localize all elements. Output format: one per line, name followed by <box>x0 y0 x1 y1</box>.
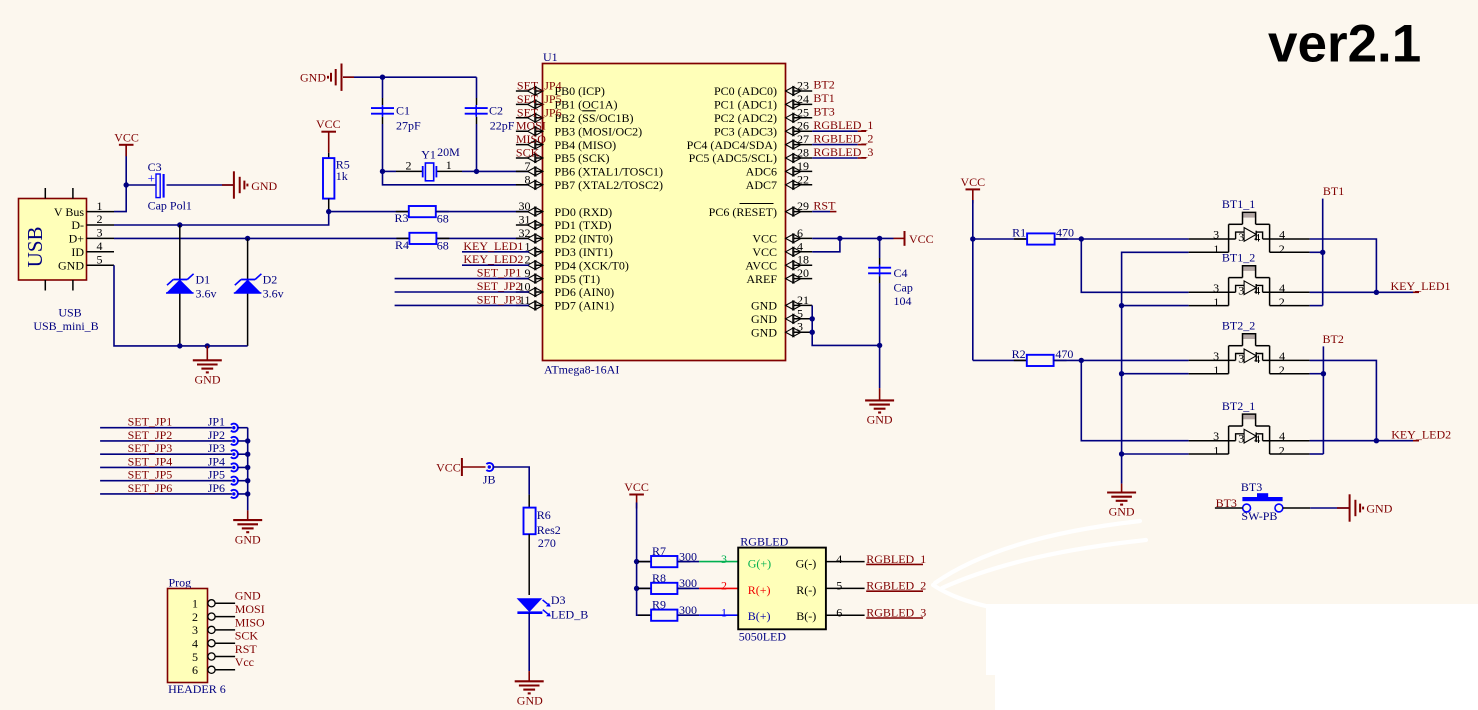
svg-text:D2: D2 <box>263 273 278 287</box>
junction GND pin5 <box>810 316 815 321</box>
svg-text:SET_JP6: SET_JP6 <box>128 481 173 495</box>
svg-text:VCC: VCC <box>114 130 139 144</box>
net label SET_JP3 (pin11) <box>395 304 529 306</box>
net label RGBLED_3 (LED pin6) <box>826 614 865 616</box>
jumper JP6 <box>232 492 235 495</box>
svg-text:SET_JP2: SET_JP2 <box>477 279 522 293</box>
svg-text:RGBLED_2: RGBLED_2 <box>866 579 926 593</box>
wire R5 bottom <box>328 199 330 212</box>
svg-text:ver2.1: ver2.1 <box>1268 14 1421 73</box>
resistor R2 <box>1014 359 1027 361</box>
svg-text:GND: GND <box>751 325 777 339</box>
wire BT2_1 pin1 <box>1122 453 1189 455</box>
net label SET_JP2 (pin10) <box>395 291 529 293</box>
wire BT2_2 pin4 to node <box>1310 360 1377 440</box>
svg-text:4: 4 <box>797 239 803 253</box>
svg-text:JP5: JP5 <box>208 468 225 482</box>
wire GND stem (USB) <box>206 346 208 360</box>
svg-text:R2: R2 <box>1012 347 1026 361</box>
svg-text:470: 470 <box>1055 347 1073 361</box>
svg-text:G(+): G(+) <box>748 556 771 570</box>
wire jumper bus <box>247 428 249 511</box>
svg-text:2: 2 <box>721 579 727 593</box>
junction D1 <box>177 222 182 227</box>
wire C4 branch <box>879 238 881 258</box>
junction BT2/pin2 <box>1321 371 1326 376</box>
svg-text:1: 1 <box>1213 242 1219 256</box>
wire R2 to BT2_2 pin3 <box>1081 359 1188 361</box>
resistor R3 <box>396 211 409 213</box>
ground GND (USB) <box>193 359 222 361</box>
wire G(+) pin3 <box>677 561 699 563</box>
wire C1 branch <box>382 77 384 98</box>
svg-text:LED_B: LED_B <box>551 607 588 621</box>
svg-text:JB: JB <box>483 472 496 486</box>
svg-text:C1: C1 <box>396 104 410 118</box>
net label SET_JP5 wire <box>100 480 232 482</box>
junction KEY_LED1 <box>1374 290 1379 295</box>
svg-text:PD0 (RXD): PD0 (RXD) <box>555 205 613 219</box>
svg-text:6: 6 <box>797 226 803 240</box>
svg-text:PC3 (ADC3): PC3 (ADC3) <box>714 124 777 138</box>
svg-text:GND: GND <box>1109 505 1135 519</box>
svg-text:GND: GND <box>235 589 261 603</box>
svg-text:C4: C4 <box>894 266 908 280</box>
wire key GND bus <box>1122 252 1189 483</box>
svg-text:RGBLED_2: RGBLED_2 <box>813 132 873 146</box>
svg-text:R7: R7 <box>652 544 666 558</box>
svg-text:104: 104 <box>894 294 912 308</box>
svg-text:470: 470 <box>1056 226 1074 240</box>
svg-text:3: 3 <box>97 226 103 240</box>
svg-text:SW-PB: SW-PB <box>1241 509 1277 523</box>
junction C4 bottom <box>877 343 882 348</box>
svg-text:GND: GND <box>751 299 777 313</box>
USB connector <box>19 199 87 281</box>
svg-text:3: 3 <box>1238 230 1244 244</box>
resistor R5 <box>328 153 330 158</box>
svg-text:2: 2 <box>97 212 103 226</box>
wire XTAL gnd bus <box>343 76 477 78</box>
svg-text:RST: RST <box>235 642 258 656</box>
net label KEY_LED1 (pin1) <box>462 251 529 253</box>
svg-text:R4: R4 <box>395 238 409 252</box>
svg-text:68: 68 <box>437 211 449 225</box>
svg-text:PD3 (INT1): PD3 (INT1) <box>555 245 613 259</box>
svg-text:SET_JP5: SET_JP5 <box>128 468 173 482</box>
wire BT1_2 pin2 <box>1310 305 1323 307</box>
svg-text:2: 2 <box>1279 444 1285 458</box>
svg-text:4: 4 <box>192 637 198 651</box>
svg-text:RGBLED_1: RGBLED_1 <box>866 552 926 566</box>
svg-text:JP1: JP1 <box>208 415 225 429</box>
svg-text:68: 68 <box>437 238 449 252</box>
svg-text:VCC: VCC <box>752 245 777 259</box>
svg-text:7: 7 <box>525 159 531 173</box>
capacitor C4 <box>879 265 881 277</box>
svg-text:1: 1 <box>97 199 103 213</box>
junction VBus/C3 <box>124 182 129 187</box>
svg-text:PB6 (XTAL1/TOSC1): PB6 (XTAL1/TOSC1) <box>555 165 664 179</box>
jumper JP4 <box>232 466 235 469</box>
U1 left pin stubs <box>516 90 543 92</box>
svg-text:ATmega8-16AI: ATmega8-16AI <box>544 363 619 377</box>
junction R1 in <box>970 236 975 241</box>
svg-text:18: 18 <box>797 253 809 267</box>
net label SET_JP2 wire <box>100 440 232 442</box>
junction GND/D1 <box>177 343 182 348</box>
wire VCC pin6 <box>812 237 893 239</box>
junction D2 <box>245 236 250 241</box>
svg-text:1: 1 <box>1213 295 1219 309</box>
wire R6 to D3 <box>528 534 530 595</box>
power VCC (U1) <box>894 237 905 239</box>
svg-text:PC0 (ADC0): PC0 (ADC0) <box>714 84 777 98</box>
svg-text:ADC7: ADC7 <box>746 178 777 192</box>
svg-text:PD2 (INT0): PD2 (INT0) <box>555 232 613 246</box>
svg-text:24: 24 <box>797 92 809 106</box>
svg-text:GND: GND <box>517 694 543 708</box>
jumper JB <box>488 465 491 468</box>
wire BT2 vertical <box>1322 346 1324 454</box>
svg-text:R1: R1 <box>1012 226 1026 240</box>
svg-text:PB4 (MISO): PB4 (MISO) <box>555 138 617 152</box>
wire GND stem (keys) <box>1121 484 1123 493</box>
svg-text:VCC: VCC <box>752 232 777 246</box>
wire BT3 to GND <box>1310 507 1349 509</box>
svg-text:1: 1 <box>192 597 198 611</box>
svg-text:BT2_1: BT2_1 <box>1222 399 1255 413</box>
junction BT2_2 pin1 <box>1119 371 1124 376</box>
junction GND/D2 <box>205 343 210 348</box>
svg-text:5: 5 <box>192 650 198 664</box>
svg-text:2: 2 <box>1279 363 1285 377</box>
svg-text:25: 25 <box>797 105 809 119</box>
svg-text:1k: 1k <box>336 169 348 183</box>
net label KEY_LED1 <box>1376 291 1413 293</box>
svg-text:BT2_2: BT2_2 <box>1222 319 1255 333</box>
net label SET_JP4 wire <box>100 466 232 468</box>
junction R1 node <box>1079 236 1084 241</box>
svg-text:BT1: BT1 <box>813 91 834 105</box>
svg-text:BT2: BT2 <box>1323 332 1344 346</box>
wire D2 drop <box>247 238 249 346</box>
svg-text:1: 1 <box>721 606 727 620</box>
net label RGBLED_1 (LED pin4) <box>826 561 865 563</box>
svg-text:2: 2 <box>1279 295 1285 309</box>
junction R8 tap <box>634 586 639 591</box>
net label SET_JP1 wire <box>100 427 232 429</box>
svg-text:RGBLED_1: RGBLED_1 <box>813 118 873 132</box>
power VCC (keys) <box>966 188 981 190</box>
svg-text:RGBLED_3: RGBLED_3 <box>866 606 926 620</box>
wire R3 to RXD <box>436 211 529 213</box>
wire R1 in <box>973 238 1027 240</box>
junction R2 node <box>1079 358 1084 363</box>
svg-text:JP6: JP6 <box>208 481 225 495</box>
svg-text:R6: R6 <box>537 508 551 522</box>
svg-text:PB1 (OC1A): PB1 (OC1A) <box>555 98 618 112</box>
wire R1 to BT1_2 pin3 <box>1081 239 1188 292</box>
jumper JP5 <box>232 479 235 482</box>
svg-text:G(-): G(-) <box>796 556 817 570</box>
wire B(+) pin1 <box>677 614 699 616</box>
wire BT2_1 pin4 <box>1310 440 1377 442</box>
junction BT1_2 pin1 <box>1119 303 1124 308</box>
wire VCC riser <box>972 200 974 360</box>
svg-text:SET_JP3: SET_JP3 <box>128 441 173 455</box>
svg-text:SET_JP5: SET_JP5 <box>517 92 562 106</box>
wire BT2_2 pin1 <box>1122 373 1189 375</box>
svg-text:Cap: Cap <box>894 280 913 294</box>
svg-text:B(+): B(+) <box>748 609 771 623</box>
svg-text:USB: USB <box>23 226 47 267</box>
svg-text:2: 2 <box>1279 242 1285 256</box>
svg-text:GND: GND <box>195 373 221 387</box>
svg-text:D1: D1 <box>196 273 211 287</box>
net label RST (pin29) <box>812 211 830 213</box>
svg-text:KEY_LED1: KEY_LED1 <box>1391 279 1451 293</box>
wire JB to R6 <box>493 467 530 495</box>
wire BT1 vertical <box>1322 199 1324 306</box>
wire D+ (USB to R4) <box>114 237 409 239</box>
svg-text:PC6 (RESET): PC6 (RESET) <box>709 205 777 219</box>
IC RGBLED 5050LED <box>738 548 826 630</box>
net label SET_JP3 wire <box>100 453 232 455</box>
svg-text:4: 4 <box>1254 230 1260 244</box>
wire BT1_2 pin4 <box>1310 291 1377 293</box>
ground GND (C3) <box>233 171 235 198</box>
svg-text:Prog: Prog <box>169 575 192 589</box>
svg-text:SET_JP4: SET_JP4 <box>128 454 173 468</box>
ground GND (U1) <box>865 399 894 401</box>
svg-text:VCC: VCC <box>316 117 341 131</box>
svg-text:GND: GND <box>235 532 261 546</box>
svg-text:22pF: 22pF <box>490 118 515 132</box>
svg-text:PD1 (TXD): PD1 (TXD) <box>555 218 612 232</box>
U1 right pin stubs <box>786 90 813 92</box>
svg-text:PC4 (ADC4/SDA): PC4 (ADC4/SDA) <box>687 138 777 152</box>
svg-text:6: 6 <box>192 663 198 677</box>
net label RGBLED_2 (LED pin5) <box>826 587 865 589</box>
svg-text:3.6v: 3.6v <box>263 286 284 300</box>
svg-text:1: 1 <box>1213 444 1219 458</box>
junction R5/R3 <box>326 209 331 214</box>
svg-text:3.6v: 3.6v <box>196 286 217 300</box>
svg-text:V Bus: V Bus <box>54 205 84 219</box>
svg-text:Res2: Res2 <box>537 523 561 537</box>
wire XTAL2 (pin8) <box>383 171 530 184</box>
wire R8 tap <box>637 587 652 589</box>
svg-text:1: 1 <box>446 158 452 172</box>
power VCC (USB) <box>119 144 134 146</box>
svg-text:27pF: 27pF <box>396 118 421 132</box>
wire R1 to BT1_1 pin3 <box>1081 238 1188 240</box>
svg-text:R(+): R(+) <box>748 583 771 597</box>
junction R7 tap <box>634 559 639 564</box>
svg-text:GND: GND <box>751 312 777 326</box>
svg-text:JP4: JP4 <box>208 454 225 468</box>
wire BT1_1 pin2 <box>1310 251 1323 253</box>
svg-text:27: 27 <box>797 132 809 146</box>
junction GND pin3 <box>810 330 815 335</box>
svg-text:MISO: MISO <box>516 132 546 146</box>
svg-text:MOSI: MOSI <box>235 602 265 616</box>
jumper JP2 <box>232 439 235 442</box>
svg-text:HEADER 6: HEADER 6 <box>168 682 226 696</box>
svg-text:BT1_2: BT1_2 <box>1222 250 1255 264</box>
svg-text:RST: RST <box>813 199 836 213</box>
jumper JP1 <box>232 426 235 429</box>
svg-text:MOSI: MOSI <box>516 119 546 133</box>
svg-text:3: 3 <box>192 623 198 637</box>
junction Y1 right <box>474 169 479 174</box>
svg-text:5: 5 <box>836 579 842 593</box>
svg-text:3: 3 <box>721 552 727 566</box>
svg-text:R3: R3 <box>394 211 408 225</box>
wire C3 to GND <box>167 184 234 186</box>
svg-text:R9: R9 <box>652 598 666 612</box>
svg-text:SCK: SCK <box>235 629 259 643</box>
svg-text:8: 8 <box>525 172 531 186</box>
svg-text:5050LED: 5050LED <box>739 629 787 643</box>
svg-text:R8: R8 <box>652 571 666 585</box>
svg-text:Vcc: Vcc <box>235 655 254 669</box>
svg-text:C2: C2 <box>489 104 503 118</box>
resistor R9 <box>638 614 651 616</box>
svg-text:GND: GND <box>251 179 277 193</box>
svg-text:4: 4 <box>97 239 103 253</box>
svg-text:BT3: BT3 <box>1241 480 1262 494</box>
capacitor C2 <box>475 105 477 117</box>
capacitor C1 <box>382 105 384 117</box>
svg-text:21: 21 <box>797 293 809 307</box>
svg-text:32: 32 <box>519 226 531 240</box>
svg-text:U1: U1 <box>543 50 558 64</box>
wire BT1_1 pin4 to node <box>1310 239 1377 292</box>
svg-text:PB3 (MOSI/OC2): PB3 (MOSI/OC2) <box>555 124 643 138</box>
svg-text:4: 4 <box>1254 352 1260 366</box>
wire D3 to GND <box>528 613 530 671</box>
junction Y1 left <box>380 169 385 174</box>
svg-text:22: 22 <box>797 172 809 186</box>
svg-text:PC2 (ADC2): PC2 (ADC2) <box>714 111 777 125</box>
wire VCC pin4 <box>812 238 840 251</box>
svg-text:D-: D- <box>71 218 84 232</box>
wire VCC bus RGB <box>637 503 652 616</box>
svg-text:JP2: JP2 <box>208 428 225 442</box>
svg-text:KEY_LED2: KEY_LED2 <box>1391 427 1451 441</box>
svg-text:1: 1 <box>1213 363 1219 377</box>
zener D2 <box>234 280 261 294</box>
svg-text:USB_mini_B: USB_mini_B <box>33 319 98 333</box>
svg-text:28: 28 <box>797 146 809 160</box>
ground GND (D3) <box>515 680 544 682</box>
wire C2 branch <box>476 77 478 98</box>
net label KEY_LED2 (pin2) <box>462 264 529 266</box>
wire R1 out <box>1055 238 1082 240</box>
wire GND to C4 <box>812 332 879 345</box>
wire VBus to VCC <box>114 145 126 212</box>
svg-text:BT2: BT2 <box>813 78 834 92</box>
zener D1 <box>166 280 193 294</box>
svg-text:MISO: MISO <box>235 615 265 629</box>
svg-text:D+: D+ <box>69 232 85 246</box>
wire R(+) pin2 <box>677 587 699 589</box>
svg-text:GND: GND <box>1366 502 1392 516</box>
capacitor C3 <box>156 174 160 198</box>
IC U1 ATmega8-16AI <box>543 64 786 361</box>
wire BT2_2 pin2 <box>1310 373 1324 375</box>
wire node to R3 <box>329 211 409 213</box>
resistor R4 <box>396 237 409 239</box>
resistor R8 <box>638 587 651 589</box>
svg-text:RGBLED_3: RGBLED_3 <box>813 145 873 159</box>
svg-text:SET_JP6: SET_JP6 <box>517 105 562 119</box>
wire D- (USB to riser) <box>114 212 329 225</box>
svg-text:19: 19 <box>797 159 809 173</box>
svg-text:4: 4 <box>1254 284 1260 298</box>
ground GND (keys) <box>1107 491 1136 493</box>
resistor R7 <box>638 561 651 563</box>
svg-text:BT3: BT3 <box>813 104 834 118</box>
wire USB GND <box>114 265 248 346</box>
svg-text:PB5 (SCK): PB5 (SCK) <box>555 151 610 165</box>
svg-text:BT1_1: BT1_1 <box>1222 197 1255 211</box>
junctions jumper bus <box>245 438 250 443</box>
svg-text:3: 3 <box>1238 351 1244 365</box>
svg-text:4: 4 <box>836 552 842 566</box>
svg-text:SCK: SCK <box>516 146 540 160</box>
svg-text:KEY_LED2: KEY_LED2 <box>463 252 523 266</box>
junction C4 top <box>877 236 882 241</box>
svg-text:VCC: VCC <box>436 461 461 475</box>
svg-text:Cap Pol1: Cap Pol1 <box>148 199 192 213</box>
wire XTAL1 (pin7) <box>477 170 530 172</box>
svg-text:5: 5 <box>797 306 803 320</box>
svg-text:D3: D3 <box>551 593 566 607</box>
svg-text:20M: 20M <box>437 145 460 159</box>
svg-text:PB0 (ICP): PB0 (ICP) <box>555 84 605 98</box>
svg-text:6: 6 <box>836 606 842 620</box>
junction BT2_1 pin1 <box>1119 451 1124 456</box>
wire R4 to INT0 <box>435 237 529 239</box>
svg-text:SET_JP1: SET_JP1 <box>128 415 173 429</box>
svg-text:3: 3 <box>797 320 803 334</box>
junction KEY_LED2 <box>1374 438 1379 443</box>
svg-text:AVCC: AVCC <box>745 258 777 272</box>
svg-text:PB2 (SS/OC1B): PB2 (SS/OC1B) <box>555 111 634 125</box>
svg-text:SET_JP3: SET_JP3 <box>477 292 522 306</box>
net label KEY_LED2 <box>1376 440 1413 442</box>
svg-text:PD5 (T1): PD5 (T1) <box>555 272 601 286</box>
svg-text:4: 4 <box>1254 432 1260 446</box>
svg-text:B(-): B(-) <box>796 609 816 623</box>
svg-text:2: 2 <box>406 158 412 172</box>
net labels RGBLED_1-3 (pins26-28) <box>812 130 858 132</box>
svg-text:29: 29 <box>797 199 809 213</box>
svg-text:GND: GND <box>300 71 326 85</box>
svg-text:23: 23 <box>797 79 809 93</box>
svg-text:RGBLED: RGBLED <box>740 535 788 549</box>
svg-text:JP3: JP3 <box>208 441 225 455</box>
svg-text:20: 20 <box>797 266 809 280</box>
svg-text:30: 30 <box>519 199 531 213</box>
wire GND stem (U1) <box>879 345 881 388</box>
svg-text:5: 5 <box>97 252 103 266</box>
svg-text:31: 31 <box>519 213 531 227</box>
svg-text:26: 26 <box>797 119 809 133</box>
